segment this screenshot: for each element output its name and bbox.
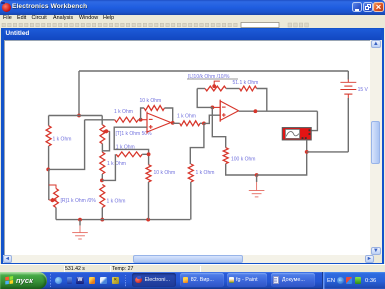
child title bar [4,29,382,40]
system tray [322,272,385,289]
potentiometer T1 [T]1 kOhm 50% [100,125,105,144]
node T1 wiper [105,129,109,133]
node rail node a [78,218,82,222]
svg-text:100 k Ohm: 100 k Ohm [231,156,255,162]
wire J1 to R1 top [49,115,79,117]
svg-text:1 k Ohm: 1 k Ohm [107,161,126,167]
wire J1 riser [78,71,80,116]
wire R8 bottom lead [148,182,150,220]
node U1 out [171,121,175,125]
resistor R11 51.1 kOhm [240,86,257,91]
wire U1 plus net [114,127,148,165]
svg-text:10 k Ohm: 10 k Ohm [154,170,176,176]
resistor R6 10 kOhm [144,106,164,111]
wire U1 out lead [173,122,180,124]
main window title bar [0,0,385,15]
wire scope right drop [311,111,317,130]
wire to U2 plus [204,115,220,123]
horizontal scrollbar [3,255,374,263]
wire N4 down link [190,123,204,164]
wire R3 bottom lead [101,208,103,220]
wire feed to R5 [85,119,115,121]
node rail node b [100,218,104,222]
wire U1 fb right [164,108,172,123]
close button [373,2,384,13]
window title [12,3,212,14]
taskbar [0,272,385,289]
resistor R7 1 kOhm [116,152,142,157]
wire R1 top lead [48,116,50,126]
task buttons [125,275,126,287]
wire N2 up link [102,154,116,180]
wire gnd to scope node [257,152,307,175]
menu bar [0,15,385,22]
wire T1 top lead [101,116,103,125]
quick launch icons [55,277,62,284]
op-amp U1 [141,112,171,134]
svg-text:1 k Ohm: 1 k Ohm [177,114,196,120]
wire top rail [79,70,348,72]
scroll corner grip [374,255,383,263]
wire fb right [257,89,267,112]
minimize button [352,2,362,12]
svg-text:10 k Ohm: 10 k Ohm [140,98,162,104]
svg-text:1 k Ohm: 1 k Ohm [116,144,135,150]
wire under P2 label [187,78,238,80]
node J1 [77,114,81,118]
potentiometer R4 [R]1 kOhm 0% [54,189,59,208]
wire bottom rail [56,219,190,221]
svg-text:1 k Ohm: 1 k Ohm [107,199,126,205]
wire fb left [197,89,212,108]
oscilloscope XSC1 [282,128,311,140]
toolbar strip [0,22,385,28]
node U1 inv node [139,118,143,122]
wire R1 bottom lead [48,146,50,169]
node node N5 [305,150,309,154]
resistor R12 100 kOhm [223,148,228,164]
resistor R8 10 kOhm [146,165,151,182]
node U2 out node [254,109,258,113]
battery B1 15 V [340,80,356,99]
wire R5 feed riser to J2 [48,120,84,170]
wire R2 bottom lead [101,174,103,180]
wire R10 bottom lead [190,182,192,220]
status bar [0,264,385,272]
resistor R1 1 kOhm [46,126,51,146]
node node N2 [100,179,104,183]
resistor R5 1 kOhm [115,117,139,122]
wire P2 left lead [197,88,205,90]
svg-text:15 V: 15 V [358,87,369,93]
wire U2 inv down [212,107,225,147]
vertical scrollbar [370,40,382,256]
ground G1 [79,220,81,226]
node P2 wiper [212,84,216,88]
restore button [363,2,373,12]
wire J2 to R4 wiper [48,169,50,200]
node U2 inv node [211,106,215,110]
node R4 wiper [51,198,55,202]
start flag icon [5,276,16,287]
start button [0,272,47,289]
svg-text:1 k Ohm: 1 k Ohm [114,109,133,115]
wire R7 right lead [142,153,148,155]
node node N3 [147,152,151,156]
resistor R3 1 kOhm [100,185,105,208]
wire R5 right lead [138,119,140,121]
svg-text:1 k Ohm: 1 k Ohm [196,170,215,176]
node node N4 [202,122,206,126]
wire U1 fb left [141,108,145,120]
start divider [50,274,52,287]
svg-text:1 k Ohm: 1 k Ohm [53,137,72,143]
wire T1 wiper step [102,131,109,151]
wire U2 out to scope [239,110,318,112]
wire battery top lead [347,71,349,80]
resistor R9 1 kOhm [180,121,200,126]
node rail node c [146,218,150,222]
resistor R2 1 kOhm [100,152,105,174]
resistor R10 1 kOhm [188,164,193,182]
ground G2 [256,175,258,182]
wire to battery minus [307,151,349,153]
potentiometer P2 [L]10 kOhm 10% [205,86,226,91]
wire scope bottom lead [306,140,308,152]
svg-text:[R]1 k Ohm /0%: [R]1 k Ohm /0% [61,198,97,204]
wire R9 right lead [200,122,204,124]
node ground node [255,173,259,177]
op-amp U2 [212,100,238,122]
wire J1 to T1 top [79,115,102,117]
canvas [4,40,370,256]
svg-text:51.1 k Ohm: 51.1 k Ohm [233,80,259,86]
wire R4 bottom lead [55,208,57,220]
node J2 [46,168,50,172]
wire T1 bottom lead [101,144,103,153]
wire R12 to ground net [226,164,257,175]
start text [16,276,33,285]
wire battery bottom lead [347,98,349,152]
app icon [2,3,11,12]
wire P2 to R11 [226,88,240,90]
